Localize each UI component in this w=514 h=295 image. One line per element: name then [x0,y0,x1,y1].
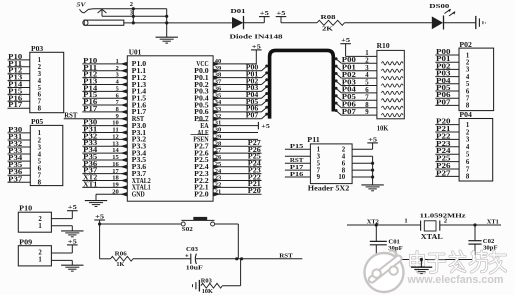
connector P09 [18,238,51,266]
svg-text:P07: P07 [246,113,259,120]
wire +5 rail to R06 [100,258,111,260]
U01 pin 8 (P1.7) [82,106,147,116]
wire P11 ground rail [372,156,374,185]
P02 pin 6 wire P05 [435,85,470,95]
P03 pin 3 wire P12 [8,68,42,78]
U01 pin 34 (P0.5) [194,99,267,110]
svg-text:P20: P20 [248,188,262,195]
wire C01 C02 to ground [376,259,475,261]
svg-text:5V: 5V [77,1,87,8]
svg-text:P32: P32 [8,141,23,148]
R10 pin 5 wire P03 [335,79,403,87]
R10 pin 3 wire P01 [335,65,403,73]
svg-text:www.elecfans.com: www.elecfans.com [407,274,504,286]
svg-text:P16: P16 [290,171,304,178]
P11 pin 6 wire [342,160,373,167]
U01 pin 35 (P0.4) [194,92,267,103]
svg-text:XT1: XT1 [487,218,499,225]
P11 pin 8 wire [342,167,373,174]
svg-text:9: 9 [317,174,321,181]
svg-text:4: 4 [38,151,42,158]
wire jack barrel to D01 anode [124,22,232,24]
connector P03 [30,45,64,113]
svg-text:P00: P00 [342,57,357,64]
U01 pin 29 (PSEN) [193,133,258,143]
ground at P11 [361,185,383,191]
svg-text:P03: P03 [342,79,357,86]
U01 pin 19 (XTAL1) [82,181,151,191]
crystal XTAL 11.0592MHz [404,212,465,241]
svg-text:+5: +5 [68,238,78,245]
svg-text:P02: P02 [342,72,357,79]
svg-text:P01: P01 [436,56,451,63]
wire +5 to R08 [281,22,317,24]
wire R06 to C03 [133,258,191,260]
svg-text:C03: C03 [186,246,199,253]
svg-text:10K: 10K [377,124,389,132]
U01 pin 13 (P3.3) [82,140,147,150]
bus junction dot [265,71,268,74]
svg-text:8: 8 [38,180,42,187]
P05 pin 1 wire P30 [8,127,42,137]
svg-text:10K: 10K [202,288,213,295]
svg-text:P05: P05 [436,85,451,92]
capacitor C03 [185,246,203,272]
svg-text:7: 7 [466,166,470,173]
svg-text:1: 1 [38,223,42,230]
svg-text:P21: P21 [436,126,451,133]
P04 pin 6 wire P25 [435,156,470,166]
junction dot [473,223,476,226]
svg-text:P2.0: P2.0 [194,192,209,199]
svg-text:RST: RST [279,253,293,260]
power +5 at P09 [67,238,78,245]
svg-text:P26: P26 [436,163,451,170]
junction dot [375,223,378,226]
resistor R06 [111,250,134,268]
svg-text:2: 2 [38,137,42,144]
svg-text:P10: P10 [19,205,33,213]
svg-text:3: 3 [317,153,321,160]
LED DS00 [429,3,455,30]
P05 pin 5 wire P34 [8,155,42,165]
U01 pin 21 (P2.0) [194,188,261,199]
U01 pin 16 (P3.6) [82,161,147,171]
svg-text:P00: P00 [436,49,451,56]
P11 pin 2 wire [342,147,373,154]
U01 pin 7 (P1.6) [82,99,147,109]
U01 pin 38 (P0.1) [194,71,267,82]
wire XT2 to XTAL [347,224,421,226]
svg-text:5: 5 [466,81,470,88]
svg-text:+5: +5 [368,136,378,143]
svg-text:11.0592MHz: 11.0592MHz [420,212,466,219]
svg-text:+5: +5 [341,37,351,44]
svg-text:P06: P06 [342,102,357,109]
svg-text:8: 8 [365,102,369,109]
junction dot [240,257,243,260]
svg-text:2: 2 [365,57,369,64]
svg-text:1: 1 [38,257,42,264]
watermark elecfans logo [365,250,404,292]
svg-text:P22: P22 [436,133,451,140]
svg-text:+5: +5 [68,204,78,211]
svg-text:P35: P35 [8,162,23,169]
svg-text:7: 7 [365,94,369,101]
U01 pin 12 (P3.2) [82,133,147,143]
wire vertical to ground [166,9,168,38]
svg-text:4: 4 [466,74,470,81]
svg-text:S02: S02 [182,226,193,233]
svg-text:+: + [185,253,188,259]
svg-text:+5: +5 [95,213,105,220]
P05 pin 2 wire P31 [8,134,42,144]
wire +5 to S02 [100,223,182,225]
capacitor C01 [370,225,403,260]
P05 pin 3 wire P32 [8,141,42,151]
P05 pin 7 wire P36 [8,169,42,179]
U01 pin 32 (P0.7) [194,113,267,124]
wire P11 pin2 to +5 [372,143,374,149]
U01 pin 25 (P2.4) [194,161,261,172]
jack switch contact arrow [98,9,107,16]
jack barrel sleeve [83,20,124,25]
svg-text:1: 1 [466,52,470,59]
P04 pin 7 wire P26 [435,163,470,173]
junction dot [371,162,374,165]
svg-text:4: 4 [342,153,346,160]
R10 pin 4 wire P02 [335,72,403,80]
svg-text:1: 1 [404,218,407,225]
svg-text:5: 5 [466,152,470,159]
op-amp U01 8051 MCU body [127,48,213,201]
P04 pin 8 wire P27 [435,170,470,180]
svg-text:P37: P37 [8,176,23,183]
U01 pin 39 (P0.0) [194,65,267,76]
svg-text:P09: P09 [19,238,33,246]
svg-text:Header 5X2: Header 5X2 [308,184,350,192]
resistor network R10 body [377,42,405,119]
R10 pin 2 wire P00 [335,57,403,65]
ground sideways left of R03 [193,280,200,292]
P03 pin 1 wire P10 [8,54,42,64]
power +5 at R10 common [340,37,351,56]
P10 pin1 wire [51,225,72,227]
svg-text:P20: P20 [436,119,451,126]
svg-text:P17: P17 [8,102,23,109]
svg-text:P31: P31 [8,134,23,141]
svg-text:4: 4 [466,144,470,151]
svg-text:6: 6 [466,88,470,95]
svg-text:6: 6 [365,87,369,94]
P04 pin 3 wire P22 [435,133,470,143]
svg-text:P25: P25 [436,156,451,163]
svg-text:P23: P23 [436,141,451,148]
svg-text:P04: P04 [342,87,357,94]
svg-text:1: 1 [38,130,42,137]
svg-text:P15: P15 [290,143,304,150]
ground at crystal caps [411,267,432,273]
U01 pin 36 (P0.3) [194,85,267,96]
svg-text:+5: +5 [277,10,287,17]
U01 pin 11 (P3.1) [82,127,147,137]
P03 pin 4 wire P13 [8,75,42,85]
svg-text:P30: P30 [8,127,23,134]
U01 pin 9 (RST) [64,113,145,124]
junction dot [235,257,238,260]
wire DS00 to ground [444,22,476,24]
P03 pin 5 wire P14 [8,82,42,92]
P02 pin 7 wire P06 [435,92,470,102]
junction dot [371,169,374,172]
connector P11 header 5x2 [307,136,352,184]
bus junction dot [265,92,268,95]
wire R03 to RST node [222,285,240,287]
R10 pin 7 wire P05 [335,94,403,102]
svg-text:P05: P05 [342,94,357,101]
bus P0 thick [270,50,334,118]
wire S02 to RST node [215,223,239,225]
ground at U01 GND pin [85,201,107,207]
P05 pin 8 wire P37 [8,176,42,186]
svg-text:5: 5 [38,158,42,165]
svg-text:3: 3 [466,137,470,144]
U01 pin 20 (GND) [96,188,145,200]
P02 pin 8 wire P07 [435,99,470,109]
junction dot [132,15,135,18]
svg-text:9: 9 [365,109,369,116]
P11 pin 4 wire [342,153,373,160]
PSEN overline [191,134,209,136]
U01 pin 3 (P1.2) [82,72,147,82]
U01 pin 30 (ALE) [197,127,258,137]
P11 pin 1 wire [285,143,321,153]
power +5 after D01 [259,10,270,23]
P03 pin 2 wire P11 [8,61,42,71]
svg-text:8: 8 [38,106,42,113]
wire jack pin3 middle [102,15,167,17]
U01 pin 26 (P2.5) [194,154,261,165]
svg-text:8: 8 [466,103,470,110]
svg-text:P01: P01 [342,65,357,72]
svg-text:2: 2 [444,218,447,225]
svg-text:P36: P36 [8,169,23,176]
svg-text:P24: P24 [436,148,451,155]
junction dot [132,21,135,24]
svg-text:2: 2 [466,129,470,136]
wire XTAL to XT1 [440,224,501,226]
svg-text:4: 4 [365,72,369,79]
power jack J1 5V input [77,1,94,12]
P11 pin 3 wire [285,153,321,160]
U01 pin 18 (XTAL2) [82,175,151,185]
P03 pin 8 wire P17 [8,102,42,112]
U01 pin 10 (P3.0) [82,120,147,130]
junction dot [371,175,374,178]
svg-text:2: 2 [38,249,42,256]
P04 pin 1 wire P20 [435,119,470,129]
svg-text:P06: P06 [436,92,451,99]
power +5 feeding R08 [276,10,287,23]
ground at P09 [61,265,83,271]
P11 pin 10 wire [338,174,372,181]
U01 pin 17 (P3.7) [82,168,147,178]
svg-text:1K: 1K [116,261,124,268]
connector P10 [18,205,51,233]
svg-text:2: 2 [38,216,42,223]
P02 pin 2 wire P01 [435,56,470,66]
U01 pin 2 (P1.1) [82,65,147,75]
P03 pin 7 wire P16 [8,95,42,105]
U01 pin 31 (EA) [200,120,270,131]
P04 pin 2 wire P21 [435,126,470,136]
svg-text:7: 7 [38,173,42,180]
wire vertical junction x133 [132,9,134,23]
svg-text:+5: +5 [261,123,270,130]
svg-text:P17: P17 [83,106,98,113]
U01 pin 22 (P2.1) [194,181,261,192]
wire D01 cathode to +5 [244,22,265,24]
U01 pin 4 (P1.3) [82,78,147,88]
svg-text:10: 10 [338,174,345,181]
svg-text:2K: 2K [322,26,333,33]
svg-text:8: 8 [466,174,470,181]
P11 pin 5 wire [285,157,321,167]
svg-text:6: 6 [38,165,42,172]
R10 pin 8 wire P06 [335,102,403,110]
svg-text:P03: P03 [436,71,451,78]
U01 pin 24 (P2.3) [194,167,261,178]
U01 pin 1 (P1.0) [82,58,147,68]
svg-text:P33: P33 [8,148,23,155]
svg-text:P04: P04 [436,78,451,85]
EA overline [198,120,209,122]
U01 pin 23 (P2.2) [194,174,261,185]
bus junction dot [265,106,268,109]
svg-text:6: 6 [466,159,470,166]
P10 pin2 wire [51,218,72,220]
P02 pin 4 wire P03 [435,71,470,81]
svg-text:+5: +5 [252,43,262,50]
svg-text:1: 1 [466,122,470,129]
R10 pin 6 wire P04 [335,87,403,95]
wire jack pin2 top [94,8,167,10]
resistor R08 [317,14,345,32]
svg-text:10uF: 10uF [186,265,203,272]
bus junction dot [265,99,268,102]
power +5 at P10 [67,204,78,211]
switch S02 [181,217,214,233]
U01 pin 37 (P0.2) [194,78,267,89]
svg-text:XTAL: XTAL [421,234,444,241]
ground under jack [156,37,178,43]
power +5 at U01 VCC [251,43,262,50]
junction dot [98,222,101,225]
svg-text:2: 2 [130,1,133,8]
wire C03 to RST node [196,258,302,260]
U01 pin 14 (P3.4) [82,147,147,157]
svg-text:30pF: 30pF [483,244,498,251]
junction dot [165,15,168,18]
junction dot [420,258,423,261]
svg-text:+5: +5 [260,10,270,17]
wire R08 to DS00 [345,22,432,24]
svg-text:R06: R06 [115,250,128,257]
capacitor C02 [468,225,497,260]
svg-text:P34: P34 [8,155,23,162]
bus junction dot [265,85,268,88]
svg-text:7: 7 [466,96,470,103]
P11 pin 9 wire [285,171,321,181]
power +5 reset circuit [94,213,105,258]
U01 pin 28 (P2.7) [194,140,261,151]
P05 pin 4 wire P33 [8,148,42,158]
U01 pin 5 (P1.4) [82,85,147,95]
svg-text:R10: R10 [377,42,391,50]
P03 pin 6 wire P15 [8,88,42,98]
U01 pin 33 (P0.6) [194,106,267,117]
bus junction dot [265,65,268,68]
P02 pin 5 wire P04 [435,78,470,88]
P04 pin 5 wire P24 [435,148,470,158]
power +5 at P11 [367,136,378,143]
junction dot [132,7,135,10]
U01 pin 27 (P2.6) [194,147,261,158]
U01 pin 15 (P3.5) [82,154,147,164]
svg-text:P02: P02 [436,63,451,70]
U01 pin 6 (P1.5) [82,92,147,102]
svg-text:XT1: XT1 [83,181,98,188]
svg-text:3: 3 [38,144,42,151]
svg-text:Diode IN4148: Diode IN4148 [230,34,284,41]
resistor R03 [201,277,223,295]
svg-text:5: 5 [365,80,369,87]
svg-text:RST: RST [64,113,77,120]
diode D01 [231,8,246,29]
svg-text:U01: U01 [129,48,142,56]
ground at P10 [61,231,83,237]
svg-text:P11: P11 [307,136,320,144]
P02 pin 1 wire P00 [435,49,470,59]
svg-text:GND: GND [132,192,145,199]
connector P04 [459,111,493,181]
R10 pin 9 wire P07 [335,109,403,117]
junction dot [165,21,168,24]
wire to crystal ground [420,260,422,268]
ground sideways right of DS00 [476,16,486,29]
svg-text:P27: P27 [436,170,451,177]
svg-text:2: 2 [466,60,470,67]
P02 pin 3 wire P02 [435,63,470,73]
connector P02 [459,41,494,111]
wire R10 pin1 [346,55,377,57]
wire RST node down to R03 [240,259,242,286]
watermark chinese text [411,251,506,273]
P04 pin 4 wire P23 [435,141,470,151]
svg-text:P07: P07 [342,109,357,116]
bus junction dot [265,78,268,81]
P09 pin2 wire [51,252,72,254]
svg-text:3: 3 [365,65,369,72]
connector P05 [30,118,63,185]
P11 pin 7 wire [285,164,321,174]
svg-text:D01: D01 [231,8,246,15]
P05 pin 6 wire P35 [8,162,42,172]
bus junction dot [265,113,268,116]
P09 pin1 wire [51,259,72,261]
svg-text:P07: P07 [436,99,451,106]
svg-text:DS00: DS00 [429,3,449,10]
